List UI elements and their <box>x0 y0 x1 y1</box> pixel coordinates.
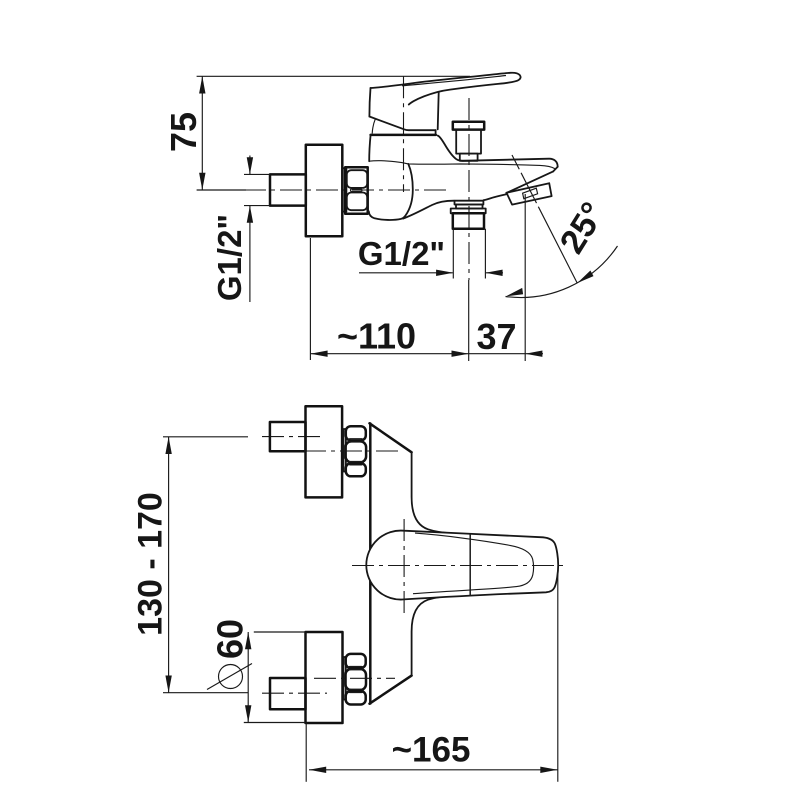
lever top inner line <box>402 76 506 86</box>
aerator housing on spout tip <box>507 183 552 204</box>
wire: spout tip extension line <box>524 194 526 361</box>
svg-text:60: 60 <box>210 619 251 659</box>
wire: handle main axis (dash-dot) <box>352 565 567 567</box>
handle inner vertical crease <box>469 534 471 596</box>
spout right face <box>553 167 558 172</box>
bottom mount: escutcheon <box>306 632 343 723</box>
svg-text:75: 75 <box>163 112 204 152</box>
diameter symbol slash <box>207 664 252 690</box>
bottom mount: washer <box>343 657 345 700</box>
wire: bottom mount faucet inlet axis (dash-dot) <box>314 677 395 679</box>
arrowhead on arc at spout axis <box>577 271 593 284</box>
washer between escutcheon and nut <box>343 168 347 211</box>
bottom outlet: middle ring <box>456 205 483 209</box>
body plate right upper edge and fillet <box>412 452 452 533</box>
wire: spout axis diagonal (dash-dot) <box>512 155 577 283</box>
top mount: wall pipe <box>270 422 306 451</box>
bottom mount: hex nut <box>346 654 366 668</box>
arrowhead at end of arc <box>506 288 523 297</box>
top mount: hex nut <box>346 426 366 440</box>
body deck step <box>435 130 437 135</box>
svg-text:G1/2": G1/2" <box>358 235 445 272</box>
handle (front view) outer capsule <box>366 531 558 600</box>
dimension 60 <box>247 632 249 723</box>
svg-text:~110: ~110 <box>337 316 416 357</box>
hex nut on inlet (side view) <box>345 167 368 214</box>
spout underside from body to outlet <box>403 201 454 219</box>
spout underside right of outlet <box>484 194 507 200</box>
dimension arc for 25 degrees <box>506 246 618 297</box>
cartridge dome cap left edge <box>372 119 375 134</box>
wire: top mount faucet inlet axis (dash-dot) <box>304 450 401 452</box>
wire: extension line from escutcheon for ~165 <box>305 724 307 782</box>
body plate left edge <box>369 424 372 704</box>
body deck top line (thick) <box>371 134 436 137</box>
escutcheon (wall flange, side view) <box>306 145 343 236</box>
handle inner contour <box>413 533 533 594</box>
svg-text:~165: ~165 <box>392 730 471 769</box>
svg-text:G1/2": G1/2" <box>211 214 248 301</box>
dimension ~165 <box>309 769 558 771</box>
diverter knob stem step <box>460 154 478 161</box>
diverter knob body <box>456 130 481 154</box>
dimension G1/2 horizontal: line and outside arrows <box>359 272 503 274</box>
dimension 37: line and outside arrow <box>469 353 543 355</box>
top mount: escutcheon <box>306 406 343 497</box>
wire: extension line top (lever max height) <box>197 75 470 77</box>
body plate bottom slant <box>370 676 412 704</box>
body left edge below deck <box>369 135 370 161</box>
body plate right lower edge and fillet <box>412 596 452 676</box>
wire: outlet center extension down to dimension line <box>468 280 470 361</box>
body shoulder and spout near edge <box>369 161 555 169</box>
body plate top slant <box>370 423 412 452</box>
wire: extension line from wall face for ~110 <box>309 238 311 360</box>
dimension 130-170 <box>168 437 170 693</box>
lever left edge <box>369 88 370 117</box>
wire: cartridge center axis (dash-dot) <box>403 76 405 192</box>
top mount: washer <box>344 429 346 472</box>
dimension 75: vertical dimension line with arrows <box>201 76 203 190</box>
wire: extension lines for outlet thread G1/2 <box>453 229 485 279</box>
spout 25-degree bevel edge <box>506 171 553 193</box>
svg-text:130 - 170: 130 - 170 <box>131 492 169 636</box>
wire: extension lines for diameter 60 <box>244 632 306 723</box>
wire: diverter / bottom outlet center axis (dash-dot) <box>468 98 470 280</box>
diverter knob flange <box>453 122 484 130</box>
lever bottom edge <box>369 117 435 131</box>
wire: wall pipe center axis (dash-dot) <box>197 189 246 191</box>
body-to-spout concave fillet and spout top edge <box>438 136 558 167</box>
svg-text:37: 37 <box>476 316 516 357</box>
wire: handle left-cap vertical axis (dash-dot) <box>403 519 405 613</box>
bottom outlet: wide flange <box>451 209 486 214</box>
lever handle (side view) <box>371 73 521 105</box>
lower body (egg) right profile <box>369 164 413 220</box>
aerator notch <box>523 188 538 199</box>
bottom mount: wall pipe <box>270 678 306 709</box>
bottom outlet: upper collar <box>455 201 484 205</box>
wire: extension lines for pipe diameter <box>244 174 270 205</box>
wall pipe (threaded tail G1/2) <box>270 174 306 205</box>
bottom outlet: shower hose nut <box>453 213 484 228</box>
wire: extension line from handle tip for ~165 <box>557 570 559 782</box>
wire: top mount pipe axis extension (dash-dot) <box>163 436 248 438</box>
dimension ~110 <box>310 353 468 355</box>
diameter symbol circle <box>219 665 243 689</box>
dimension G1/2 vertical: stems and outside arrows <box>249 156 251 303</box>
wire: bottom mount pipe axis extension (dash-dot) <box>163 692 248 694</box>
lever neck right edge <box>438 92 439 129</box>
